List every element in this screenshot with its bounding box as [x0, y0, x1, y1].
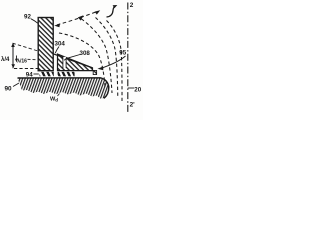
field arc 2 dashed	[82, 19, 113, 93]
svg-text:94: 94	[26, 72, 33, 79]
field arc 3 dashed	[96, 18, 118, 99]
svg-text:20: 20	[134, 86, 141, 93]
feed row 94 slab right part	[58, 72, 75, 77]
small block under wedge tip	[93, 70, 96, 74]
dashed short reference line 2	[28, 58, 39, 61]
ground plane 90 hatched band	[18, 78, 109, 99]
notch slot in wedge (308 separation)	[63, 57, 66, 68]
leader for 308	[64, 55, 80, 61]
svg-text:90: 90	[5, 86, 13, 93]
svg-text:308: 308	[80, 50, 91, 57]
axis line 2-2' dash-dot	[127, 3, 129, 114]
ground plane top edge and right bulge outline	[18, 78, 109, 99]
svg-text:2': 2'	[130, 102, 136, 109]
svg-text:95: 95	[119, 50, 126, 57]
feed row 94 slab	[40, 72, 54, 77]
leader from 94 to slab	[34, 73, 39, 75]
wedge sloped top edge extended to column	[53, 54, 92, 68]
arrowhead upper right of leader	[95, 10, 101, 14]
small arrow for lambda/16	[16, 56, 18, 61]
leader for 304	[55, 47, 59, 54]
field arc 4 dashed	[107, 21, 123, 102]
svg-text:2: 2	[130, 2, 134, 9]
tick near Wd	[58, 94, 60, 97]
leader tick for 20	[128, 87, 134, 89]
leader for 92	[31, 19, 39, 24]
svg-text:304: 304	[55, 41, 66, 48]
background	[0, 0, 143, 120]
leader for 95	[101, 56, 126, 68]
field arc 2 arrowhead	[78, 15, 84, 20]
lambda/4 bottom arrowhead	[11, 64, 15, 68]
field arc 1 dashed	[59, 33, 105, 88]
curl arrow near axis	[107, 6, 116, 17]
svg-text:Wd: Wd	[50, 97, 58, 103]
column 92 body	[38, 18, 53, 71]
dashed leader from column with double arrowheads	[57, 12, 97, 25]
wedge 304	[58, 54, 93, 71]
arrowhead for 95 leader	[98, 67, 104, 71]
svg-text:λ/4: λ/4	[1, 57, 10, 63]
arrowhead at column	[54, 24, 60, 28]
svg-text:λ/16: λ/16	[17, 58, 27, 64]
dashed bottom reference line for lambda/4	[14, 68, 38, 70]
dashed sloped reference line for lambda/4	[13, 43, 39, 51]
lambda/4 dimension line	[12, 44, 14, 68]
leader for 90	[13, 83, 19, 87]
lambda/4 top arrowhead	[11, 43, 15, 47]
svg-text:92: 92	[24, 14, 31, 21]
